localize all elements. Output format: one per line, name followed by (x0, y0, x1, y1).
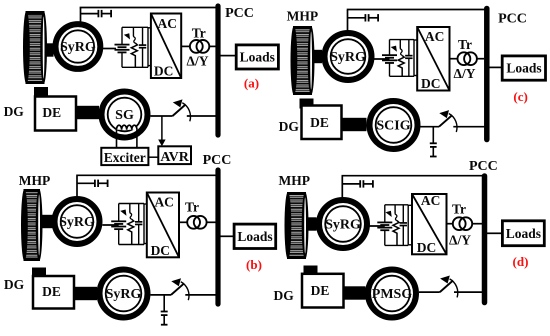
svg-text:DC: DC (417, 240, 437, 255)
svg-text:DE: DE (310, 115, 329, 130)
svg-text:SCIG: SCIG (376, 119, 410, 134)
svg-text:PCC: PCC (203, 153, 232, 168)
svg-text:PCC: PCC (225, 6, 254, 21)
svg-text:Δ/Y: Δ/Y (454, 66, 476, 81)
svg-text:DG: DG (279, 119, 300, 134)
svg-text:AC: AC (425, 29, 445, 44)
svg-text:MHP: MHP (279, 173, 311, 188)
svg-text:SG: SG (115, 108, 134, 123)
svg-text:AC: AC (158, 16, 178, 31)
svg-text:PMSG: PMSG (372, 287, 413, 302)
svg-text:(b): (b) (246, 257, 262, 272)
svg-text:Tr: Tr (185, 200, 199, 215)
svg-text:SyRG: SyRG (59, 215, 95, 230)
svg-text:SyRG: SyRG (325, 218, 361, 233)
svg-text:Tr: Tr (192, 26, 206, 41)
svg-text:DE: DE (311, 283, 330, 298)
svg-text:(a): (a) (244, 76, 259, 91)
svg-text:Tr: Tr (458, 37, 472, 52)
svg-text:(c): (c) (513, 89, 527, 104)
svg-text:DC: DC (421, 76, 441, 91)
svg-text:(d): (d) (513, 254, 529, 269)
svg-text:DG: DG (4, 277, 25, 292)
svg-text:DE: DE (42, 105, 61, 120)
svg-text:Loads: Loads (237, 229, 272, 244)
svg-text:SyRG: SyRG (330, 50, 366, 65)
svg-text:Tr: Tr (452, 202, 466, 217)
svg-text:Loads: Loads (506, 61, 541, 76)
svg-text:DG: DG (273, 288, 294, 303)
svg-text:SyRG: SyRG (106, 287, 142, 302)
svg-text:Exciter: Exciter (104, 150, 146, 165)
svg-text:PCC: PCC (469, 159, 498, 174)
svg-text:DG: DG (4, 104, 25, 119)
svg-text:DC: DC (151, 243, 171, 258)
svg-text:MHP: MHP (19, 173, 51, 188)
svg-text:AC: AC (154, 195, 174, 210)
svg-text:SyRG: SyRG (60, 40, 96, 55)
svg-text:PCC: PCC (498, 11, 527, 26)
svg-text:Δ/Y: Δ/Y (449, 233, 471, 248)
svg-text:Loads: Loads (240, 50, 275, 65)
svg-text:Loads: Loads (506, 226, 541, 241)
svg-text:MHP: MHP (287, 8, 319, 23)
svg-text:AC: AC (421, 193, 441, 208)
svg-text:DE: DE (42, 284, 61, 299)
svg-text:DC: DC (154, 64, 174, 79)
svg-text:Δ/Y: Δ/Y (187, 53, 209, 68)
svg-text:AVR: AVR (160, 150, 189, 165)
